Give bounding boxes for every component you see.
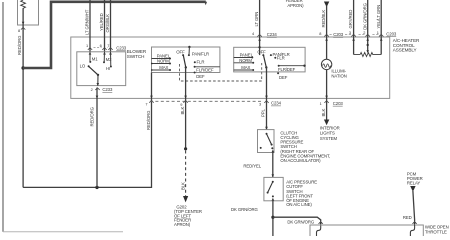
A/C-heater control assembly box bbox=[71, 37, 390, 98]
gang2 FLR/DEF finger bbox=[278, 65, 306, 67]
gang1 MAX finger bbox=[151, 69, 171, 71]
svg-text:LT GRN: LT GRN bbox=[254, 12, 259, 27]
clutch switch top contact bbox=[266, 133, 268, 135]
wire BLK from lamp to interior lights system bbox=[326, 70, 328, 120]
svg-text:LO: LO bbox=[80, 63, 86, 68]
gang2 lever bbox=[264, 55, 267, 67]
svg-text:APRON): APRON) bbox=[174, 222, 191, 227]
wire LT GRN from C234 into gang2 bbox=[259, 0, 261, 55]
wire DK GRN/ORG to wide open throttle relay bbox=[273, 217, 321, 221]
blower switch contact stub HI bbox=[110, 52, 112, 68]
arrow up at assembly box top edge (RED/BLK wire) bbox=[325, 38, 328, 41]
arrow into clutch switch top edge bbox=[265, 127, 268, 130]
node: junction dot of blower switch RED/ORG wire on bus bbox=[95, 186, 98, 189]
svg-text:2: 2 bbox=[91, 87, 93, 92]
svg-text:1: 1 bbox=[320, 101, 322, 106]
arrow up at assembly box top edge (LT GRN wire) bbox=[258, 38, 261, 41]
cutoff switch bottom contact bbox=[272, 195, 274, 197]
gang1 OFF contact bbox=[182, 54, 184, 56]
svg-text:DEF: DEF bbox=[196, 74, 205, 79]
wire RED/ORG from blower motor resistor down bbox=[22, 8, 24, 187]
svg-text:GRY/RED: GRY/RED bbox=[348, 10, 353, 29]
arrow into resistor box bottom edge bbox=[22, 22, 25, 25]
cutoff switch lever bbox=[268, 182, 273, 193]
page border bottom edge bbox=[3, 231, 123, 233]
svg-text:7: 7 bbox=[107, 43, 109, 48]
blower switch lever from LO to common bbox=[89, 66, 98, 75]
svg-text:FLR/DEF: FLR/DEF bbox=[196, 67, 214, 72]
arrow out of clutch switch bottom edge bbox=[272, 150, 275, 153]
svg-text:ON ACCUMULATOR): ON ACCUMULATOR) bbox=[280, 158, 321, 163]
svg-text:PAN/FLR: PAN/FLR bbox=[192, 52, 209, 57]
svg-text:RED/ORG: RED/ORG bbox=[146, 110, 151, 130]
svg-text:PPL: PPL bbox=[261, 108, 266, 117]
wire RED from PCM power relay to WOT relay bbox=[413, 191, 415, 222]
svg-text:NORM: NORM bbox=[239, 58, 252, 63]
node: junction on DK GRN/ORG wire bbox=[271, 216, 274, 219]
svg-text:FLR/DEF: FLR/DEF bbox=[278, 67, 296, 72]
svg-text:9: 9 bbox=[180, 102, 182, 107]
blower switch contact stub M1 bbox=[89, 52, 91, 63]
wire RED/ORG gang1 left exit down to bus bbox=[151, 73, 153, 105]
gang1 lever bbox=[183, 55, 186, 67]
svg-text:RED: RED bbox=[403, 215, 412, 220]
splice node on BLK wire bbox=[184, 147, 187, 150]
svg-text:3: 3 bbox=[259, 102, 261, 107]
gang2 PANEL finger bbox=[234, 57, 254, 59]
function selector switch gang 1 box bbox=[152, 47, 220, 73]
svg-text:HI: HI bbox=[106, 66, 110, 71]
svg-text:BLK: BLK bbox=[180, 106, 185, 114]
wire LT GRN/WHT into blower switch bbox=[89, 0, 91, 52]
resistor element inside blower motor resistor bbox=[21, 0, 26, 9]
A/C pressure cutoff switch box bbox=[264, 177, 283, 200]
label CLUTCH CYCLING PRESSURE SWITCH bbox=[280, 130, 330, 163]
gang1 PANEL finger bbox=[152, 58, 172, 60]
svg-text:MAX: MAX bbox=[241, 65, 250, 70]
svg-text:C233: C233 bbox=[102, 87, 113, 92]
svg-text:BLK: BLK bbox=[321, 108, 326, 116]
arrow through assembly box bottom edge (BLK wire) bbox=[184, 96, 187, 99]
svg-text:YEL/RED: YEL/RED bbox=[99, 13, 104, 31]
cutoff switch top contact bbox=[272, 181, 274, 183]
connector C234 bottom foot pin 9 bbox=[183, 101, 187, 103]
svg-text:RED/ORG: RED/ORG bbox=[17, 35, 22, 55]
svg-text:C203: C203 bbox=[333, 32, 344, 37]
gang1 NORM finger bbox=[151, 63, 171, 65]
gang1 DEF contact on bottom edge bbox=[194, 72, 196, 74]
svg-text:8: 8 bbox=[319, 31, 321, 36]
node: junction dot on RED/ORG wire bbox=[21, 66, 24, 69]
arrow out of cutoff switch bottom edge bbox=[272, 198, 275, 201]
arrow into A/C pressure cutoff switch top edge bbox=[272, 174, 275, 177]
clutch switch lower left contact bbox=[260, 147, 262, 149]
wire ORG/BLK into blower switch bbox=[110, 0, 112, 52]
arrow into WOT relay box top edge (RED wire) bbox=[413, 222, 416, 225]
svg-text:C234: C234 bbox=[271, 101, 282, 106]
svg-text:DK GRN/ORG: DK GRN/ORG bbox=[287, 219, 314, 224]
wire BLK dashed to ground bbox=[185, 151, 187, 197]
cutoff switch lever end node bbox=[267, 192, 269, 194]
gang2 MAX finger bbox=[234, 69, 255, 71]
svg-text:C234: C234 bbox=[267, 32, 278, 37]
arrow out of blower switch bottom edge bbox=[97, 83, 100, 86]
blower switch common node bbox=[97, 74, 99, 76]
svg-text:DK GRN/ORG: DK GRN/ORG bbox=[231, 207, 258, 212]
svg-text:RED/BLK: RED/BLK bbox=[321, 10, 326, 28]
clutch switch lever bbox=[267, 134, 272, 145]
wire RED/BLK down to illumination lamp bbox=[326, 6, 328, 60]
arrow through assembly box bottom edge (blower wire) bbox=[96, 96, 99, 99]
svg-text:BLK: BLK bbox=[180, 182, 185, 190]
illumination lamp bbox=[321, 59, 331, 69]
wiper arrow pointing at rheostat bbox=[366, 50, 369, 53]
connector C233 dashes bbox=[94, 47, 109, 49]
label A/C-HEATER CONTROL ASSEMBLY bbox=[393, 38, 420, 53]
svg-text:7: 7 bbox=[145, 101, 147, 106]
gang1 FLR contact bbox=[194, 61, 196, 63]
gang1 FLR/DEF finger bbox=[194, 66, 220, 68]
svg-text:3: 3 bbox=[349, 30, 351, 35]
blower motor resistor box (partial, cropped at top) bbox=[18, 0, 39, 25]
gang2 NORM finger bbox=[234, 62, 255, 64]
svg-text:PANEL: PANEL bbox=[240, 53, 254, 58]
destination arrow to interior lights system bbox=[324, 120, 329, 126]
svg-text:ASSEMBLY: ASSEMBLY bbox=[393, 48, 417, 53]
gang1 feed stub to PAN/FLR contact bbox=[188, 47, 190, 56]
label A/C PRESSURE CUTOFF SWITCH bbox=[286, 179, 317, 207]
svg-text:M1: M1 bbox=[92, 56, 98, 61]
svg-text:8: 8 bbox=[18, 28, 20, 33]
mechanical link dashed between gangs bbox=[180, 63, 262, 81]
node on gang1 top edge bbox=[188, 46, 190, 48]
label ILLUMI-NATION bbox=[331, 68, 346, 78]
svg-text:C203: C203 bbox=[333, 101, 344, 106]
connector C234 top pin foot bbox=[257, 34, 261, 36]
node on dimmer wiper stem bbox=[367, 44, 369, 46]
gang2 DEF contact bbox=[277, 72, 279, 74]
wire BLK gang1 right exit bbox=[185, 67, 187, 148]
label INTERIOR LIGHTS SYSTEM bbox=[320, 125, 340, 141]
svg-text:ON A/C LINE): ON A/C LINE) bbox=[286, 202, 312, 207]
svg-text:FLR: FLR bbox=[197, 59, 205, 64]
gang2 OFF contact bbox=[262, 54, 264, 56]
wire DK GRN/ORG into dimmer wiper bbox=[367, 0, 369, 52]
connector C233 top: pin feet bbox=[88, 48, 113, 50]
gang2 PAN/FLR contact bbox=[270, 54, 272, 56]
gang2 lever end node bbox=[265, 66, 267, 68]
svg-text:FLR: FLR bbox=[277, 56, 285, 61]
source arrow on RED/BLK illumination feed wire bbox=[324, 2, 329, 8]
wire DK GRN/ORG from cutoff switch down off page bbox=[272, 201, 274, 236]
connector symbol below resistor box bbox=[21, 27, 25, 29]
clutch switch lever end node bbox=[271, 144, 273, 146]
svg-text:1: 1 bbox=[377, 30, 379, 35]
wire RED/ORG from blower switch to bus bbox=[96, 88, 98, 188]
dimmer rheostat element and links bbox=[354, 53, 382, 57]
label G202 and location bbox=[174, 205, 202, 228]
wire bus at bottom joining RED/ORG wires bbox=[23, 104, 151, 187]
wire GRY/RED into dimmer rheostat bbox=[353, 0, 355, 55]
svg-text:THROTTLE: THROTTLE bbox=[425, 230, 447, 235]
wire RED/YEL between pressure switches bbox=[272, 153, 274, 178]
svg-text:1: 1 bbox=[86, 43, 88, 48]
top center location note (clipped) bbox=[286, 0, 305, 8]
svg-text:LT GRN/WHT: LT GRN/WHT bbox=[85, 9, 90, 35]
svg-text:C233: C233 bbox=[116, 46, 127, 51]
blower switch box bbox=[77, 52, 126, 86]
wire YEL/RED into blower switch bbox=[104, 0, 106, 52]
svg-text:RELAY: RELAY bbox=[407, 181, 421, 186]
arrows into blower switch top edge bbox=[89, 52, 112, 55]
label WIDE OPEN THROTTLE bbox=[425, 225, 449, 235]
wire thick feed: from junction right, up left side, across top bbox=[23, 2, 206, 68]
node on gang2 top edge bbox=[258, 46, 260, 48]
wire common of blower switch down to bottom edge bbox=[97, 75, 99, 86]
svg-text:MAX: MAX bbox=[159, 65, 168, 70]
gang1 lever end node bbox=[185, 66, 187, 68]
svg-text:OFF: OFF bbox=[176, 49, 185, 54]
svg-text:DEF: DEF bbox=[279, 75, 288, 80]
connector C234 bottom dashed line bbox=[150, 100, 263, 102]
svg-text:NATION: NATION bbox=[331, 74, 346, 79]
svg-text:ORG/BLK: ORG/BLK bbox=[105, 14, 110, 33]
gang2 FLR contact bbox=[274, 57, 276, 59]
svg-text:2: 2 bbox=[363, 30, 365, 35]
svg-text:SWITCH: SWITCH bbox=[127, 54, 145, 59]
blower switch LO contact bbox=[88, 65, 90, 67]
wide open throttle relay box (partial, cropped at bottom) bbox=[310, 225, 423, 236]
connector C234 bottom foot pin 7 bbox=[149, 101, 153, 103]
connector foot into WOT relay box bbox=[319, 222, 323, 224]
wire PPL gang2 exit down to clutch cycling pressure switch bbox=[266, 67, 268, 129]
svg-text:C203: C203 bbox=[386, 31, 397, 36]
blower switch contact stub M2 bbox=[103, 52, 105, 64]
label PCM POWER RELAY bbox=[407, 171, 423, 185]
wire hook inside WOT box (right) bbox=[410, 225, 414, 236]
label BLOWER SWITCH bbox=[127, 49, 147, 59]
svg-text:SYSTEM: SYSTEM bbox=[320, 136, 338, 141]
clutch cycling pressure switch box bbox=[258, 130, 275, 153]
connector C203 foot pin 8 bbox=[324, 34, 328, 36]
svg-text:LIGHTS: LIGHTS bbox=[320, 131, 335, 136]
connector C234 bottom foot pin 3 bbox=[264, 101, 268, 103]
connector foot (RED wire into WOT box) bbox=[412, 222, 416, 224]
svg-text:APRON): APRON) bbox=[287, 3, 304, 8]
stub at end of top feed wire bbox=[204, 2, 207, 5]
svg-text:RED/ORG: RED/ORG bbox=[89, 106, 94, 126]
svg-text:DK GRN/ORG: DK GRN/ORG bbox=[362, 2, 367, 29]
arrow through assembly box bottom edge (gang1 left exit) bbox=[150, 96, 153, 99]
ground G202 symbol bbox=[183, 196, 188, 202]
wire YEL/LT GRN into dimmer rheostat bbox=[380, 0, 382, 55]
arrow through assembly box bottom edge (PPL wire) bbox=[265, 96, 268, 99]
connector C203 top feet pins 3 2 1 bbox=[351, 34, 383, 36]
svg-text:YEL/LT GRN: YEL/LT GRN bbox=[376, 5, 381, 29]
page border left edge bbox=[2, 2, 4, 232]
arrows up at assembly box top edge (dimmer wires) bbox=[352, 38, 382, 41]
arrow into WOT relay box top edge bbox=[319, 222, 322, 225]
svg-text:OFF: OFF bbox=[257, 49, 266, 54]
connector C203 bottom foot pin 1 bbox=[324, 101, 328, 103]
connector C233 bottom pin foot bbox=[95, 88, 99, 90]
svg-text:6: 6 bbox=[100, 43, 102, 48]
wire hook inside WOT box (left) bbox=[317, 225, 321, 236]
clutch switch bottom contact bbox=[271, 147, 273, 149]
connector C203 dashed line bbox=[330, 33, 379, 35]
function selector switch gang 2 box bbox=[234, 47, 305, 72]
svg-text:RED/YEL: RED/YEL bbox=[243, 164, 261, 169]
svg-text:NORM: NORM bbox=[157, 59, 170, 64]
arrow through assembly box bottom edge (lamp wire) bbox=[325, 96, 328, 99]
source arrow from PCM power relay bbox=[410, 186, 415, 192]
svg-text:INTERIOR: INTERIOR bbox=[320, 125, 340, 130]
